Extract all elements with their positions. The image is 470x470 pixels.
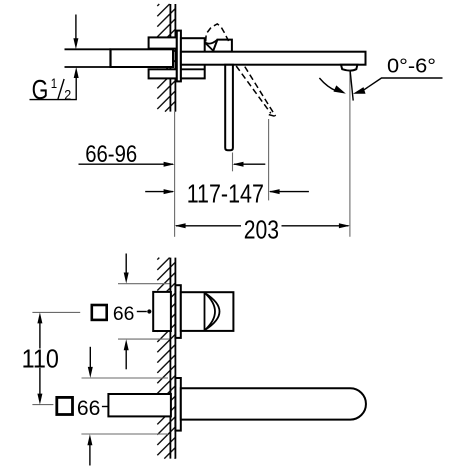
svg-text:66: 66 bbox=[77, 397, 101, 420]
G1/2 thread dimension arrows bbox=[75, 15, 77, 46]
cartridge sleeve bbox=[181, 38, 205, 78]
wall hatching (top view) bbox=[157, 4, 175, 112]
spout bar (side view) bbox=[181, 52, 366, 65]
leader line 0-6 deg bbox=[368, 78, 442, 87]
lever pivot wedge bbox=[205, 40, 218, 44]
concealed body bbox=[111, 49, 174, 67]
svg-text:1: 1 bbox=[51, 75, 58, 91]
dimension 203 bbox=[176, 225, 241, 227]
svg-text:66: 66 bbox=[113, 304, 134, 325]
extension line: lever end bbox=[232, 153, 234, 172]
inlet pipe G1/2 bbox=[65, 49, 111, 67]
mixer concealed box bbox=[153, 292, 171, 331]
svg-text:117-147: 117-147 bbox=[187, 179, 264, 209]
mixer escutcheon plate bbox=[175, 285, 180, 338]
svg-text:0°-6°: 0°-6° bbox=[387, 54, 436, 77]
dashed lever raised position bbox=[206, 24, 229, 42]
svg-text:66-96: 66-96 bbox=[85, 141, 137, 168]
dimension 110 bbox=[32, 311, 80, 313]
spout escutcheon plate bbox=[175, 378, 180, 431]
lever knob block bbox=[213, 40, 232, 52]
wall lines (top view) bbox=[170, 4, 175, 112]
svg-text:G: G bbox=[32, 74, 49, 105]
extension line: dashed lever tip bbox=[268, 119, 270, 200]
upper mounting tab bbox=[149, 37, 177, 48]
swivel arc 0-6 deg bbox=[319, 78, 336, 91]
label square 66 (spout) bbox=[57, 397, 73, 414]
wall hatching (lower view) bbox=[157, 258, 175, 459]
spout (front view, stadium shape) bbox=[181, 388, 366, 419]
svg-text:203: 203 bbox=[244, 214, 279, 244]
dimension 66-96 bbox=[79, 163, 174, 165]
dashed lever forward position bbox=[236, 66, 275, 116]
lower mounting tab bbox=[149, 69, 177, 78]
handle knob arcs bbox=[205, 293, 219, 330]
svg-text:110: 110 bbox=[22, 343, 59, 373]
spout concealed box bbox=[108, 394, 170, 416]
water stream axis / outlet extension line bbox=[349, 70, 351, 237]
label square 66 (mixer) bbox=[92, 305, 107, 320]
dim arrows: mixer plate 66 bbox=[118, 283, 170, 285]
wall flange / escutcheon (top view) bbox=[177, 31, 181, 82]
svg-text:2: 2 bbox=[64, 86, 71, 102]
lever grip (down position) bbox=[225, 65, 233, 151]
wall lines (lower view) bbox=[170, 258, 175, 459]
mixer handle body bbox=[181, 292, 234, 331]
dimension 117-147 bbox=[145, 191, 173, 193]
extension line: wall face bbox=[174, 112, 176, 237]
aerator / mousseur bbox=[341, 65, 357, 71]
dim arrows: spout plate 66 bbox=[82, 377, 169, 379]
